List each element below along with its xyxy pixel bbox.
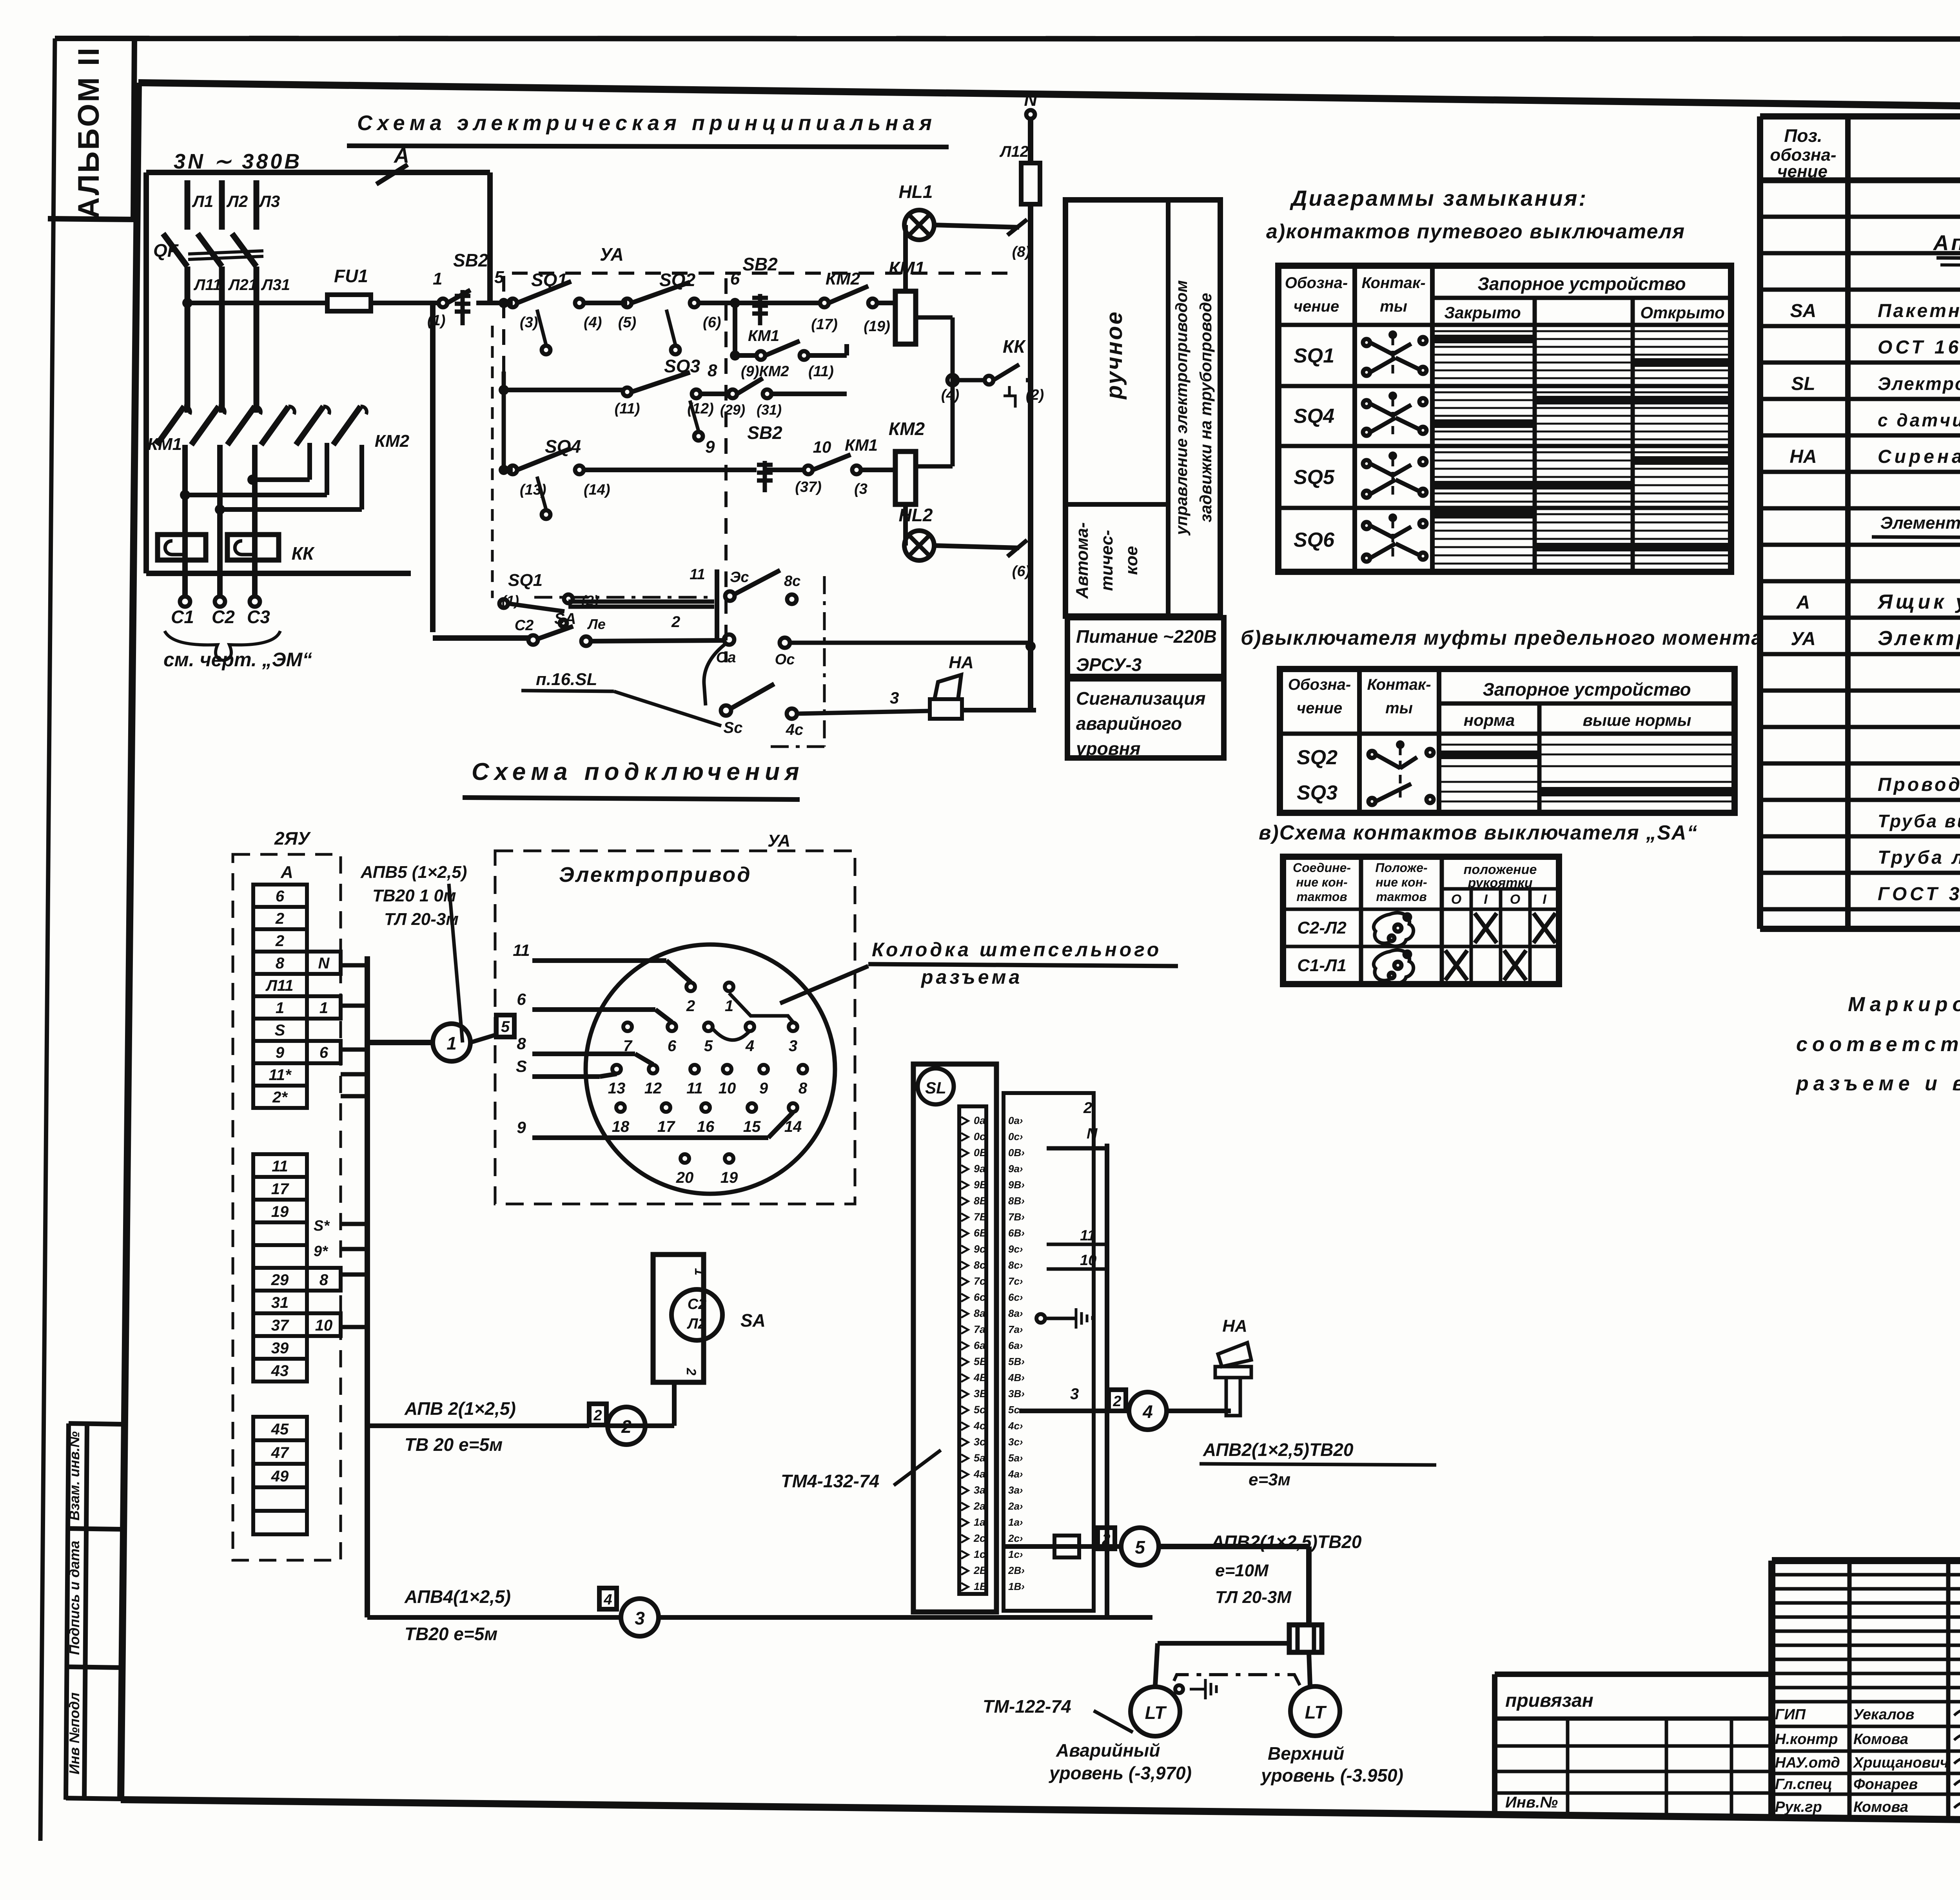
- svg-text:5В›: 5В›: [1008, 1356, 1025, 1367]
- svg-text:HL1: HL1: [899, 181, 933, 202]
- svg-text:(11): (11): [615, 401, 640, 417]
- svg-text:S: S: [275, 1022, 285, 1039]
- svg-text:1: 1: [692, 1268, 707, 1276]
- svg-text:КМ1: КМ1: [147, 435, 182, 454]
- svg-text:8с›: 8с›: [1008, 1259, 1023, 1271]
- svg-text:6В›: 6В›: [1008, 1227, 1025, 1239]
- svg-text:уровня: уровня: [1075, 738, 1140, 759]
- svg-text:9а›: 9а›: [1008, 1163, 1023, 1175]
- svg-text:Комова: Комова: [1853, 1799, 1908, 1815]
- svg-text:10: 10: [719, 1080, 736, 1097]
- svg-text:8: 8: [517, 1034, 526, 1053]
- svg-text:5а: 5а: [974, 1452, 985, 1464]
- svg-text:С2-Л2: С2-Л2: [1297, 918, 1347, 937]
- svg-text:Гл.спец: Гл.спец: [1775, 1776, 1832, 1793]
- svg-text:а)контактов путевого выключате: а)контактов путевого выключателя: [1266, 220, 1685, 243]
- svg-text:1: 1: [319, 999, 328, 1017]
- svg-text:2: 2: [621, 1416, 632, 1437]
- svg-text:10: 10: [1080, 1252, 1096, 1269]
- svg-text:Л11: Л11: [193, 276, 221, 294]
- svg-text:2: 2: [684, 1368, 699, 1376]
- svg-text:Автома-: Автома-: [1073, 522, 1092, 599]
- svg-text:1: 1: [276, 999, 284, 1017]
- svg-text:SQ1: SQ1: [508, 571, 543, 590]
- svg-text:19: 19: [271, 1203, 289, 1220]
- svg-text:(4): (4): [584, 314, 602, 331]
- svg-text:(19): (19): [864, 318, 890, 335]
- svg-text:Подпись и дата: Подпись и дата: [66, 1541, 82, 1655]
- svg-text:31: 31: [271, 1294, 289, 1311]
- svg-text:SL: SL: [925, 1079, 946, 1097]
- svg-text:ТВ20 1 0м: ТВ20 1 0м: [372, 886, 456, 905]
- svg-text:2с: 2с: [973, 1532, 985, 1544]
- svg-text:9В: 9В: [974, 1179, 987, 1191]
- svg-text:SL: SL: [1791, 373, 1815, 394]
- svg-text:3: 3: [1070, 1385, 1079, 1403]
- svg-text:0с: 0с: [974, 1131, 985, 1142]
- svg-text:6: 6: [517, 990, 526, 1008]
- svg-text:8: 8: [708, 361, 717, 380]
- svg-text:SQ6: SQ6: [1294, 529, 1335, 551]
- svg-text:в)Схема контактов выключателя: в)Схема контактов выключателя „SA“: [1259, 821, 1698, 844]
- svg-text:1с: 1с: [974, 1548, 985, 1560]
- svg-text:2В›: 2В›: [1008, 1565, 1025, 1576]
- svg-text:(6): (6): [1012, 563, 1030, 580]
- svg-text:3с: 3с: [974, 1436, 985, 1448]
- svg-text:ГИП: ГИП: [1775, 1706, 1806, 1723]
- svg-text:С2: С2: [515, 617, 534, 634]
- svg-text:16: 16: [697, 1118, 715, 1135]
- svg-text:15: 15: [743, 1118, 761, 1135]
- svg-text:0а›: 0а›: [1008, 1115, 1023, 1126]
- svg-text:НАУ.отд: НАУ.отд: [1775, 1755, 1840, 1771]
- svg-text:Поз.: Поз.: [1784, 125, 1822, 146]
- svg-text:N: N: [1024, 89, 1037, 110]
- svg-text:4: 4: [745, 1037, 754, 1055]
- svg-text:7В: 7В: [974, 1211, 987, 1223]
- svg-text:11: 11: [272, 1158, 288, 1175]
- svg-text:3: 3: [789, 1037, 797, 1055]
- svg-text:8В›: 8В›: [1008, 1195, 1025, 1207]
- svg-text:12: 12: [644, 1080, 662, 1097]
- svg-text:(2): (2): [1026, 387, 1044, 403]
- svg-text:Инв №подл: Инв №подл: [66, 1692, 82, 1774]
- svg-text:(8): (8): [1012, 244, 1030, 260]
- svg-text:6а: 6а: [974, 1340, 985, 1351]
- svg-text:6: 6: [276, 888, 285, 905]
- svg-text:3В: 3В: [974, 1388, 987, 1400]
- svg-text:О: О: [1510, 892, 1520, 907]
- svg-text:Положе-: Положе-: [1375, 861, 1427, 875]
- svg-text:37: 37: [271, 1317, 289, 1334]
- svg-text:УА: УА: [600, 244, 624, 265]
- svg-text:7а›: 7а›: [1008, 1323, 1023, 1335]
- svg-text:ты: ты: [1385, 700, 1413, 717]
- svg-text:Верхний: Верхний: [1268, 1743, 1344, 1764]
- svg-text:SQ2: SQ2: [1297, 746, 1338, 769]
- svg-text:Л2: Л2: [226, 192, 248, 210]
- svg-text:(1): (1): [502, 593, 519, 609]
- svg-text:ТЛ 20-3М: ТЛ 20-3М: [1215, 1588, 1292, 1607]
- svg-text:43: 43: [271, 1362, 289, 1380]
- svg-text:10: 10: [315, 1317, 333, 1334]
- svg-text:КМ2: КМ2: [375, 431, 410, 451]
- svg-text:Л11: Л11: [265, 977, 293, 994]
- svg-text:4а: 4а: [973, 1468, 985, 1480]
- svg-text:Уекалов: Уекалов: [1853, 1706, 1915, 1723]
- svg-text:Запорное устройство: Запорное устройство: [1483, 679, 1691, 700]
- svg-text:0В›: 0В›: [1008, 1147, 1025, 1158]
- svg-text:разъеме и в ящике управления.: разъеме и в ящике управления.: [1795, 1072, 1960, 1095]
- svg-text:Контак-: Контак-: [1367, 676, 1431, 693]
- svg-text:(5): (5): [618, 314, 636, 331]
- svg-text:А: А: [1796, 592, 1810, 613]
- svg-text:АПВ4(1×2,5): АПВ4(1×2,5): [404, 1586, 511, 1607]
- svg-text:3: 3: [890, 689, 899, 707]
- svg-text:6: 6: [730, 269, 740, 288]
- svg-text:2: 2: [1112, 1393, 1121, 1410]
- svg-text:чение: чение: [1294, 298, 1339, 315]
- svg-text:с датчиками длиной L₁=0,25м;L₂: с датчиками длиной L₁=0,25м;L₂=0,25м: [1878, 410, 1960, 430]
- svg-text:АПВ2(1×2,5)ТВ20: АПВ2(1×2,5)ТВ20: [1211, 1532, 1362, 1552]
- svg-text:аварийного: аварийного: [1076, 713, 1182, 734]
- svg-text:1: 1: [433, 269, 442, 288]
- svg-text:чение: чение: [1777, 162, 1828, 181]
- svg-text:Колодка штепсельного: Колодка штепсельного: [872, 939, 1161, 961]
- svg-text:SB2: SB2: [747, 422, 782, 443]
- svg-text:1: 1: [446, 1033, 457, 1053]
- svg-text:9: 9: [276, 1044, 285, 1061]
- svg-text:5а›: 5а›: [1008, 1452, 1023, 1464]
- svg-text:С3: С3: [247, 607, 270, 627]
- svg-text:6с: 6с: [974, 1291, 985, 1303]
- svg-text:2: 2: [593, 1407, 602, 1424]
- svg-text:8: 8: [799, 1080, 808, 1097]
- svg-text:АПВ2(1×2,5)ТВ20: АПВ2(1×2,5)ТВ20: [1203, 1440, 1354, 1460]
- svg-text:8с: 8с: [974, 1259, 985, 1271]
- svg-text:Sc: Sc: [724, 719, 743, 736]
- svg-text:SQ3: SQ3: [1297, 781, 1338, 804]
- svg-text:Л2: Л2: [686, 1316, 706, 1332]
- svg-text:17: 17: [657, 1118, 675, 1135]
- svg-text:7с: 7с: [974, 1275, 985, 1287]
- svg-text:5: 5: [1135, 1537, 1145, 1557]
- svg-text:4а›: 4а›: [1008, 1468, 1023, 1480]
- svg-text:SA: SA: [1790, 301, 1817, 321]
- svg-text:Рук.гр: Рук.гр: [1775, 1799, 1822, 1815]
- svg-text:ГОСТ 3262-75*: ГОСТ 3262-75*: [1878, 884, 1960, 905]
- svg-text:НА: НА: [949, 653, 974, 672]
- svg-text:3а›: 3а›: [1008, 1484, 1023, 1496]
- svg-text:Аппаратура по месту: Аппаратура по месту: [1933, 230, 1960, 255]
- svg-text:Обозна-: Обозна-: [1285, 274, 1348, 292]
- svg-text:9: 9: [517, 1118, 526, 1137]
- svg-text:9с: 9с: [974, 1243, 985, 1255]
- svg-text:FU1: FU1: [334, 266, 368, 286]
- svg-text:КМ1: КМ1: [845, 436, 878, 454]
- svg-text:SB2: SB2: [742, 254, 778, 274]
- svg-text:ТМ-122-74: ТМ-122-74: [983, 1696, 1071, 1717]
- svg-text:НА: НА: [1789, 446, 1817, 467]
- svg-text:Л21: Л21: [228, 276, 257, 294]
- svg-text:Сигнализация: Сигнализация: [1076, 688, 1205, 709]
- svg-text:3: 3: [635, 1608, 645, 1628]
- svg-text:см. черт. „ЭМ“: см. черт. „ЭМ“: [163, 649, 312, 671]
- svg-text:Открыто: Открыто: [1640, 303, 1724, 322]
- svg-text:SQ1: SQ1: [1294, 344, 1334, 367]
- svg-text:С2: С2: [688, 1296, 707, 1313]
- svg-text:О: О: [1451, 892, 1461, 907]
- svg-text:УА: УА: [768, 831, 790, 850]
- svg-text:АЛЬБОМ II: АЛЬБОМ II: [72, 46, 105, 219]
- svg-text:ТЛ 20-3м: ТЛ 20-3м: [384, 910, 459, 929]
- svg-text:(6): (6): [703, 314, 721, 331]
- svg-text:привязан: привязан: [1505, 1690, 1593, 1711]
- svg-text:6В: 6В: [974, 1227, 987, 1239]
- svg-text:4: 4: [1142, 1401, 1153, 1422]
- svg-text:13: 13: [608, 1080, 626, 1097]
- svg-text:КК: КК: [292, 543, 315, 564]
- svg-text:11: 11: [1080, 1227, 1095, 1244]
- svg-text:7В›: 7В›: [1008, 1211, 1025, 1223]
- svg-text:11: 11: [686, 1080, 703, 1097]
- svg-text:б)выключателя муфты предельног: б)выключателя муфты предельного момента: [1241, 627, 1763, 649]
- svg-text:ТМ4-132-74: ТМ4-132-74: [781, 1471, 879, 1491]
- svg-text:45: 45: [271, 1421, 289, 1438]
- svg-text:разъема: разъема: [920, 966, 1022, 988]
- svg-text:4: 4: [603, 1592, 612, 1608]
- svg-text:11*: 11*: [269, 1066, 292, 1084]
- svg-text:Электронный сигнализатор уровн: Электронный сигнализатор уровня ЭРСУ-3: [1878, 373, 1960, 394]
- svg-text:Н.контр: Н.контр: [1775, 1731, 1838, 1748]
- svg-text:п.16.SL: п.16.SL: [536, 670, 597, 689]
- svg-text:Схема электрическая принципиал: Схема электрическая принципиальная: [357, 111, 936, 135]
- svg-text:20: 20: [676, 1169, 694, 1186]
- svg-text:норма: норма: [1464, 711, 1515, 729]
- svg-text:49: 49: [271, 1468, 289, 1485]
- svg-text:управление электроприводом: управление электроприводом: [1172, 280, 1191, 536]
- svg-text:8В: 8В: [974, 1195, 987, 1207]
- svg-text:АПВ 2(1×2,5): АПВ 2(1×2,5): [404, 1398, 516, 1419]
- svg-text:Л12: Л12: [999, 143, 1029, 160]
- svg-text:18: 18: [612, 1118, 630, 1135]
- svg-text:S*: S*: [314, 1218, 330, 1234]
- svg-text:1: 1: [725, 997, 733, 1015]
- svg-text:ние кон-: ние кон-: [1376, 875, 1427, 889]
- svg-text:1а›: 1а›: [1008, 1516, 1023, 1528]
- svg-text:5: 5: [501, 1018, 510, 1035]
- svg-text:0В: 0В: [974, 1147, 987, 1158]
- svg-text:е=3м: е=3м: [1249, 1470, 1290, 1489]
- svg-text:Хрищанович: Хрищанович: [1853, 1755, 1949, 1771]
- svg-text:5: 5: [704, 1037, 713, 1055]
- svg-text:А: А: [280, 863, 293, 882]
- svg-text:2: 2: [275, 932, 284, 950]
- svg-text:4с›: 4с›: [1008, 1420, 1023, 1432]
- svg-text:2а›: 2а›: [1008, 1500, 1023, 1512]
- svg-text:(9)КМ2: (9)КМ2: [741, 363, 789, 380]
- svg-text:9с›: 9с›: [1008, 1243, 1023, 1255]
- svg-text:кое: кое: [1122, 546, 1141, 575]
- svg-text:11: 11: [690, 566, 705, 583]
- svg-text:2: 2: [1102, 1531, 1110, 1548]
- svg-text:8: 8: [276, 955, 285, 972]
- svg-text:ТВ 20 е=5м: ТВ 20 е=5м: [405, 1434, 503, 1455]
- svg-text:Провод АПВ 1×2,5-660 ГОСТ6323-: Провод АПВ 1×2,5-660 ГОСТ6323-79: [1878, 774, 1960, 795]
- svg-text:Элементы управления электропри: Элементы управления электроприводом М: [1880, 513, 1960, 533]
- svg-text:7а: 7а: [974, 1323, 985, 1335]
- svg-text:2: 2: [1083, 1099, 1092, 1117]
- svg-text:(4): (4): [941, 387, 959, 403]
- svg-text:2а: 2а: [973, 1500, 985, 1512]
- svg-text:Диаграммы замыкания:: Диаграммы замыкания:: [1290, 186, 1588, 210]
- svg-text:1с›: 1с›: [1008, 1548, 1023, 1560]
- svg-text:Питание ~220В: Питание ~220В: [1076, 626, 1217, 647]
- svg-text:3а: 3а: [974, 1484, 985, 1496]
- svg-text:Запорное устройство: Запорное устройство: [1477, 274, 1686, 294]
- svg-text:N: N: [318, 955, 330, 972]
- svg-text:1В›: 1В›: [1008, 1581, 1025, 1592]
- svg-text:29: 29: [271, 1271, 289, 1289]
- svg-text:КМ1: КМ1: [748, 327, 779, 344]
- svg-text:Фонарев: Фонарев: [1853, 1776, 1918, 1793]
- svg-text:уровень (-3.950): уровень (-3.950): [1260, 1765, 1403, 1786]
- svg-text:8а: 8а: [974, 1307, 985, 1319]
- svg-text:4с: 4с: [973, 1420, 985, 1432]
- svg-text:5В: 5В: [974, 1356, 987, 1367]
- svg-text:(1): (1): [427, 312, 445, 329]
- svg-text:(3): (3): [520, 314, 538, 331]
- svg-text:Л3: Л3: [258, 192, 280, 210]
- svg-text:8: 8: [319, 1271, 328, 1289]
- svg-text:тактов: тактов: [1376, 890, 1426, 904]
- svg-text:НА: НА: [1222, 1316, 1247, 1336]
- svg-text:Электропривод 87А008: Электропривод 87А008: [1878, 627, 1960, 650]
- svg-text:ОСТ 16.0.526.001-77: ОСТ 16.0.526.001-77: [1878, 337, 1960, 358]
- svg-text:ты: ты: [1380, 298, 1407, 315]
- svg-text:8а›: 8а›: [1008, 1307, 1023, 1319]
- svg-text:Ле: Ле: [587, 616, 606, 632]
- svg-text:Схема подключения: Схема подключения: [472, 758, 804, 785]
- svg-text:4с: 4с: [786, 721, 804, 738]
- svg-text:2: 2: [686, 997, 695, 1015]
- svg-text:4В›: 4В›: [1008, 1372, 1025, 1383]
- svg-text:Аварийный: Аварийный: [1056, 1740, 1160, 1760]
- svg-text:задвижки на трубопроводе: задвижки на трубопроводе: [1196, 293, 1215, 522]
- svg-text:ние кон-: ние кон-: [1296, 875, 1347, 889]
- svg-text:(11): (11): [808, 363, 834, 380]
- svg-text:3В›: 3В›: [1008, 1388, 1025, 1400]
- svg-text:6с›: 6с›: [1008, 1291, 1023, 1303]
- svg-text:соответствует маркировке на шт: соответствует маркировке на штепсельном: [1796, 1033, 1960, 1056]
- svg-text:Маркировка контактов, данная в: Маркировка контактов, данная в скобках,: [1848, 993, 1960, 1016]
- svg-text:10: 10: [813, 438, 831, 456]
- svg-text:Комова: Комова: [1853, 1731, 1908, 1748]
- svg-text:е=10М: е=10М: [1215, 1561, 1269, 1580]
- svg-text:6: 6: [319, 1044, 328, 1061]
- svg-text:9: 9: [759, 1080, 768, 1097]
- svg-text:47: 47: [271, 1444, 289, 1461]
- svg-text:С2: С2: [212, 607, 235, 627]
- svg-text:17: 17: [271, 1180, 289, 1198]
- svg-text:S: S: [516, 1057, 527, 1075]
- svg-text:Инв.№: Инв.№: [1505, 1794, 1558, 1811]
- svg-text:SQ5: SQ5: [1294, 466, 1335, 489]
- svg-text:SA: SA: [740, 1310, 766, 1331]
- svg-text:Закрыто: Закрыто: [1444, 303, 1521, 322]
- svg-text:5с: 5с: [974, 1404, 985, 1416]
- svg-text:Контак-: Контак-: [1361, 274, 1425, 292]
- svg-text:Л31: Л31: [261, 276, 290, 294]
- svg-text:(29): (29): [720, 402, 745, 418]
- svg-text:Обозна-: Обозна-: [1288, 676, 1351, 693]
- svg-text:Л1: Л1: [192, 192, 213, 210]
- svg-text:SQ4: SQ4: [545, 436, 581, 457]
- svg-text:9В›: 9В›: [1008, 1179, 1025, 1191]
- svg-text:КК: КК: [1003, 336, 1026, 357]
- svg-text:2с›: 2с›: [1008, 1532, 1023, 1544]
- svg-text:8с: 8с: [784, 573, 800, 589]
- svg-text:39: 39: [271, 1340, 289, 1357]
- svg-text:2*: 2*: [272, 1089, 288, 1106]
- svg-text:SQ4: SQ4: [1294, 405, 1334, 428]
- svg-text:Пакетный выключатель ПВ2-101Р5: Пакетный выключатель ПВ2-101Р56: [1878, 301, 1960, 321]
- svg-text:3с›: 3с›: [1008, 1436, 1023, 1448]
- svg-text:LT: LT: [1305, 1702, 1327, 1722]
- svg-text:1В: 1В: [974, 1581, 987, 1592]
- svg-text:(2): (2): [581, 593, 599, 609]
- svg-text:ручное: ручное: [1102, 310, 1127, 400]
- svg-text:С1: С1: [171, 607, 194, 627]
- svg-text:19: 19: [720, 1169, 738, 1186]
- svg-text:чение: чение: [1297, 700, 1342, 717]
- svg-text:ЭРСУ-3: ЭРСУ-3: [1076, 654, 1142, 675]
- svg-text:9: 9: [705, 437, 715, 457]
- svg-text:2В: 2В: [973, 1565, 987, 1576]
- svg-text:(14): (14): [584, 482, 610, 498]
- svg-text:I: I: [1484, 892, 1488, 907]
- svg-text:Труба легкая М-Р-20×2,5-6000: Труба легкая М-Р-20×2,5-6000: [1878, 847, 1960, 868]
- svg-text:7с›: 7с›: [1008, 1275, 1023, 1287]
- svg-text:Ос: Ос: [775, 651, 795, 668]
- svg-text:9а: 9а: [974, 1163, 985, 1175]
- svg-text:Сирена СС-1 ТУ25.05-1044-76: Сирена СС-1 ТУ25.05-1044-76: [1878, 446, 1960, 467]
- svg-text:I: I: [1543, 892, 1547, 907]
- svg-text:2: 2: [275, 910, 284, 927]
- svg-text:Труба винипластовая ТВ20 МН142: Труба винипластовая ТВ20 МН1427-61: [1878, 811, 1960, 831]
- svg-text:Эс: Эс: [730, 569, 749, 586]
- svg-text:6: 6: [668, 1037, 677, 1055]
- svg-text:1а: 1а: [974, 1516, 985, 1528]
- svg-text:SB2: SB2: [453, 250, 488, 270]
- svg-text:2ЯУ: 2ЯУ: [274, 828, 311, 848]
- svg-text:LT: LT: [1145, 1702, 1167, 1723]
- svg-text:Ящик управления: Ящик управления: [1877, 591, 1960, 613]
- svg-text:2: 2: [671, 613, 680, 631]
- svg-text:Соедине-: Соедине-: [1293, 861, 1351, 875]
- svg-text:SA: SA: [554, 610, 576, 627]
- svg-text:0а: 0а: [974, 1115, 985, 1126]
- svg-text:уровень (-3,970): уровень (-3,970): [1049, 1763, 1192, 1783]
- svg-text:УА: УА: [1791, 629, 1816, 649]
- svg-text:Электропривод: Электропривод: [559, 863, 752, 887]
- svg-text:КМ2: КМ2: [889, 419, 925, 439]
- svg-text:тактов: тактов: [1296, 890, 1347, 904]
- svg-text:4В: 4В: [973, 1372, 987, 1383]
- svg-text:0с›: 0с›: [1008, 1131, 1023, 1142]
- svg-text:ТВ20 е=5м: ТВ20 е=5м: [405, 1624, 497, 1644]
- svg-text:(3: (3: [854, 481, 867, 497]
